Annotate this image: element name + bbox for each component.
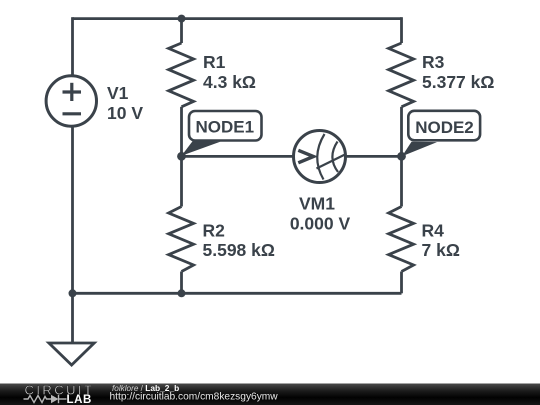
node dot NODE2: [397, 152, 406, 161]
svg-text:7 kΩ: 7 kΩ: [422, 240, 460, 260]
svg-text:R1: R1: [203, 52, 226, 72]
resistor R1: [169, 19, 194, 157]
svg-text:5.377 kΩ: 5.377 kΩ: [422, 72, 494, 92]
svg-text:4.3 kΩ: 4.3 kΩ: [203, 72, 256, 92]
label R2 value: [203, 221, 275, 261]
voltage source V1: [46, 76, 96, 126]
voltmeter VM1: [294, 131, 347, 183]
wire left vertical lower: [71, 126, 74, 293]
svg-text:R3: R3: [422, 52, 445, 72]
svg-text:NODE2: NODE2: [415, 118, 474, 137]
ground: [49, 293, 94, 365]
footer bar: [0, 384, 540, 405]
CircuitLab logo schematic squiggle: [24, 395, 67, 403]
svg-text:LAB: LAB: [67, 394, 92, 405]
resistor R4: [389, 156, 414, 293]
node dot NODE1: [177, 152, 186, 161]
svg-text:R4: R4: [422, 221, 445, 241]
label R1 value: [203, 52, 256, 92]
label V1 value: [107, 83, 143, 123]
node NODE2 callout: [402, 111, 480, 156]
svg-text:5.598 kΩ: 5.598 kΩ: [203, 240, 275, 260]
wire top horizontal: [73, 17, 402, 20]
label R4 value: [422, 221, 460, 261]
label VM1 value: [290, 194, 351, 234]
svg-text:R2: R2: [203, 221, 226, 241]
svg-text:V1: V1: [107, 83, 129, 103]
svg-text:0.000 V: 0.000 V: [290, 214, 351, 234]
wire bottom horizontal: [73, 292, 402, 295]
node NODE1 callout: [182, 111, 262, 156]
junction dot top middle: [178, 15, 186, 23]
wire node1 to voltmeter: [182, 155, 294, 158]
svg-text:NODE1: NODE1: [196, 118, 255, 137]
svg-text:VM1: VM1: [299, 194, 335, 214]
label R3 value: [422, 52, 494, 92]
resistor R2: [169, 156, 194, 293]
svg-text:10 V: 10 V: [107, 103, 143, 123]
svg-text:http://circuitlab.com/cm8kezsg: http://circuitlab.com/cm8kezsgy6ymw: [110, 392, 279, 403]
resistor R3: [389, 17, 414, 156]
wire voltmeter to node2: [346, 155, 402, 158]
junction dot bottom middle: [178, 289, 186, 297]
junction dot bottom left: [69, 289, 77, 297]
wire left vertical upper: [71, 17, 74, 76]
